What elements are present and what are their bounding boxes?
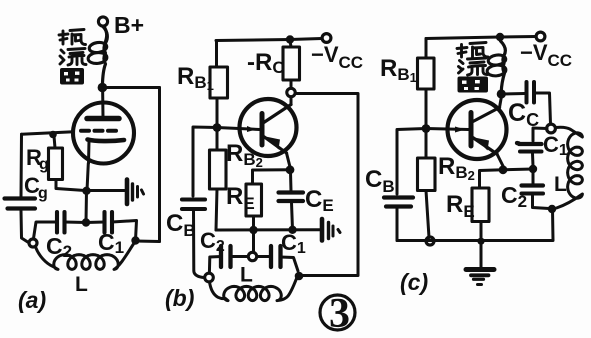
inductor L (a)	[36, 244, 134, 269]
terminal -Vcc (b)	[322, 34, 331, 43]
cathode lead	[87, 141, 89, 191]
emitter stroke with arrow	[263, 136, 287, 153]
capacitor C2 (a)	[55, 212, 59, 233]
wire collector node to Cc	[502, 92, 525, 96]
resistor RC	[289, 44, 293, 48]
wire base junction to transistor	[217, 128, 260, 130]
capacitor CE	[289, 172, 293, 191]
svg-text:CE: CE	[305, 186, 334, 215]
capacitor C1 (c)	[517, 143, 542, 144]
wire base junction (c)	[422, 124, 431, 133]
svg-text:−VCC: −VCC	[311, 42, 363, 72]
svg-text:-RC: -RC	[247, 49, 285, 77]
label 圈	[60, 68, 84, 85]
resistor RE (b)	[246, 184, 262, 216]
terminal B+	[98, 17, 107, 26]
ground (a) chassis	[127, 180, 144, 205]
svg-text:C2: C2	[200, 228, 225, 255]
wire junction to right rail	[102, 86, 159, 89]
node tank bottom (c)	[548, 205, 556, 213]
label 圈 (c)	[458, 77, 489, 93]
choke coil (c)	[501, 41, 506, 92]
wire right rail down	[158, 88, 161, 242]
node collector (circle)	[287, 88, 295, 96]
base arrow blob	[247, 126, 256, 132]
capacitor C1 (b)	[269, 246, 273, 267]
node CE bottom	[288, 226, 296, 234]
wire Cg to tank left node	[21, 211, 29, 243]
top wire	[216, 39, 322, 41]
resistor RE (c)	[472, 188, 489, 222]
capacitor C2 (b)	[219, 246, 223, 267]
node tank right	[131, 236, 139, 244]
svg-text:C1: C1	[281, 230, 306, 257]
svg-text:L: L	[554, 173, 567, 196]
capacitor C1 (a)	[102, 212, 106, 233]
choke coil L1 (a)	[102, 27, 107, 87]
transistor Q1 (b)	[240, 99, 297, 156]
svg-text:RB1: RB1	[177, 63, 214, 93]
wire cathode to ground	[87, 189, 125, 192]
emitter lead (c)	[497, 154, 503, 166]
base arrow blob (c)	[455, 127, 465, 133]
label 扼	[59, 30, 86, 45]
wire tank bottom to rail	[397, 209, 553, 241]
grid lead wire	[22, 132, 74, 134]
wire emitter to RE branch	[253, 170, 291, 184]
svg-text:RB1: RB1	[380, 55, 417, 85]
wire emitter junction to C1/C2 node	[503, 168, 533, 172]
node cathode junction	[82, 187, 90, 195]
ground (c) earth	[466, 270, 494, 285]
collector stroke	[263, 105, 291, 124]
svg-text:g: g	[39, 156, 49, 173]
node choke top	[496, 33, 504, 41]
svg-text:RE: RE	[226, 183, 255, 213]
resistor RB2 (b)	[216, 131, 219, 150]
wire collector node right and down	[296, 94, 359, 276]
node rail (circle, c)	[426, 237, 434, 245]
emitter lead	[287, 153, 291, 167]
svg-text:C1: C1	[98, 229, 124, 257]
svg-text:L: L	[75, 273, 88, 296]
label 流	[60, 49, 86, 66]
resistor Rg	[54, 136, 55, 148]
tube plate	[87, 116, 119, 122]
terminal -Vcc (c)	[536, 32, 545, 41]
node emitter junction	[286, 165, 295, 174]
node collector (c)	[497, 89, 506, 98]
figure number 3	[320, 295, 355, 330]
label 扼 (c)	[457, 43, 488, 58]
svg-text:(a): (a)	[18, 287, 46, 313]
node C2/C1 tap	[82, 218, 90, 226]
capacitor Cg	[5, 196, 36, 200]
collector stroke (c)	[472, 108, 500, 123]
svg-text:CB: CB	[166, 210, 196, 240]
node: plate/choke junction	[98, 83, 108, 93]
svg-text:RE: RE	[446, 191, 475, 221]
wire B+ to choke	[104, 27, 107, 45]
label 流 (c)	[459, 58, 488, 75]
wire grid node down to Cg	[20, 134, 24, 196]
svg-text:3: 3	[329, 291, 350, 337]
svg-text:(c): (c)	[400, 269, 428, 295]
node tank right (b)	[295, 272, 304, 281]
svg-text:C1: C1	[543, 132, 568, 159]
node grid/Rg junction	[49, 131, 57, 139]
emitter stroke with arrow (c)	[472, 137, 497, 154]
wire cathode node down to tap	[85, 191, 89, 222]
capacitor Cc	[525, 82, 529, 103]
tube grid (dashed)	[81, 129, 120, 133]
tube cathode	[88, 140, 125, 142]
svg-text:L: L	[240, 264, 253, 287]
node tank left (circle, b)	[205, 273, 214, 282]
wire emitter to RE (c)	[480, 170, 504, 188]
node tank left (circle)	[29, 239, 37, 247]
inductor L (c)	[556, 127, 583, 208]
tube V1 envelope	[73, 103, 134, 164]
tube plate lead	[101, 88, 104, 118]
resistor RB1 (c)	[418, 58, 435, 89]
wire base junction left to CB branch	[193, 127, 217, 196]
node base junction (b)	[213, 123, 222, 132]
resistor RB1 (b)	[210, 67, 228, 98]
node C1/C2 junction	[529, 165, 537, 173]
svg-text:g: g	[38, 185, 48, 202]
top wire	[426, 37, 536, 39]
svg-text:−VCC: −VCC	[520, 40, 572, 70]
ground (b) chassis	[322, 219, 340, 241]
svg-text:CB: CB	[365, 166, 395, 196]
inductor L (b)	[210, 279, 297, 301]
node tank top (circle, c)	[547, 124, 556, 133]
bottom rail (b)	[216, 228, 320, 231]
svg-text:B+: B+	[114, 12, 144, 38]
node tank tap (circle)	[248, 252, 256, 260]
capacitor CB (c)	[384, 195, 413, 199]
svg-text:(b): (b)	[165, 285, 194, 311]
wire base left to CB (c)	[397, 129, 426, 195]
wire node to C1	[533, 128, 547, 141]
transistor Q2 (c)	[448, 100, 507, 159]
capacitor CB (b)	[182, 197, 205, 201]
wire top to RB1	[215, 41, 218, 68]
resistor RB2 (c)	[425, 131, 428, 158]
base bar	[260, 114, 265, 146]
node RE bottom	[249, 226, 257, 234]
wire tank right to rail	[136, 240, 160, 244]
node RC top junction	[286, 35, 294, 43]
node emitter (c)	[499, 165, 508, 174]
capacitor C2 (c)	[532, 172, 535, 184]
base bar (c)	[469, 113, 474, 147]
wire top to RB1 (c)	[425, 39, 428, 59]
node RE/rail crossing	[477, 238, 484, 245]
